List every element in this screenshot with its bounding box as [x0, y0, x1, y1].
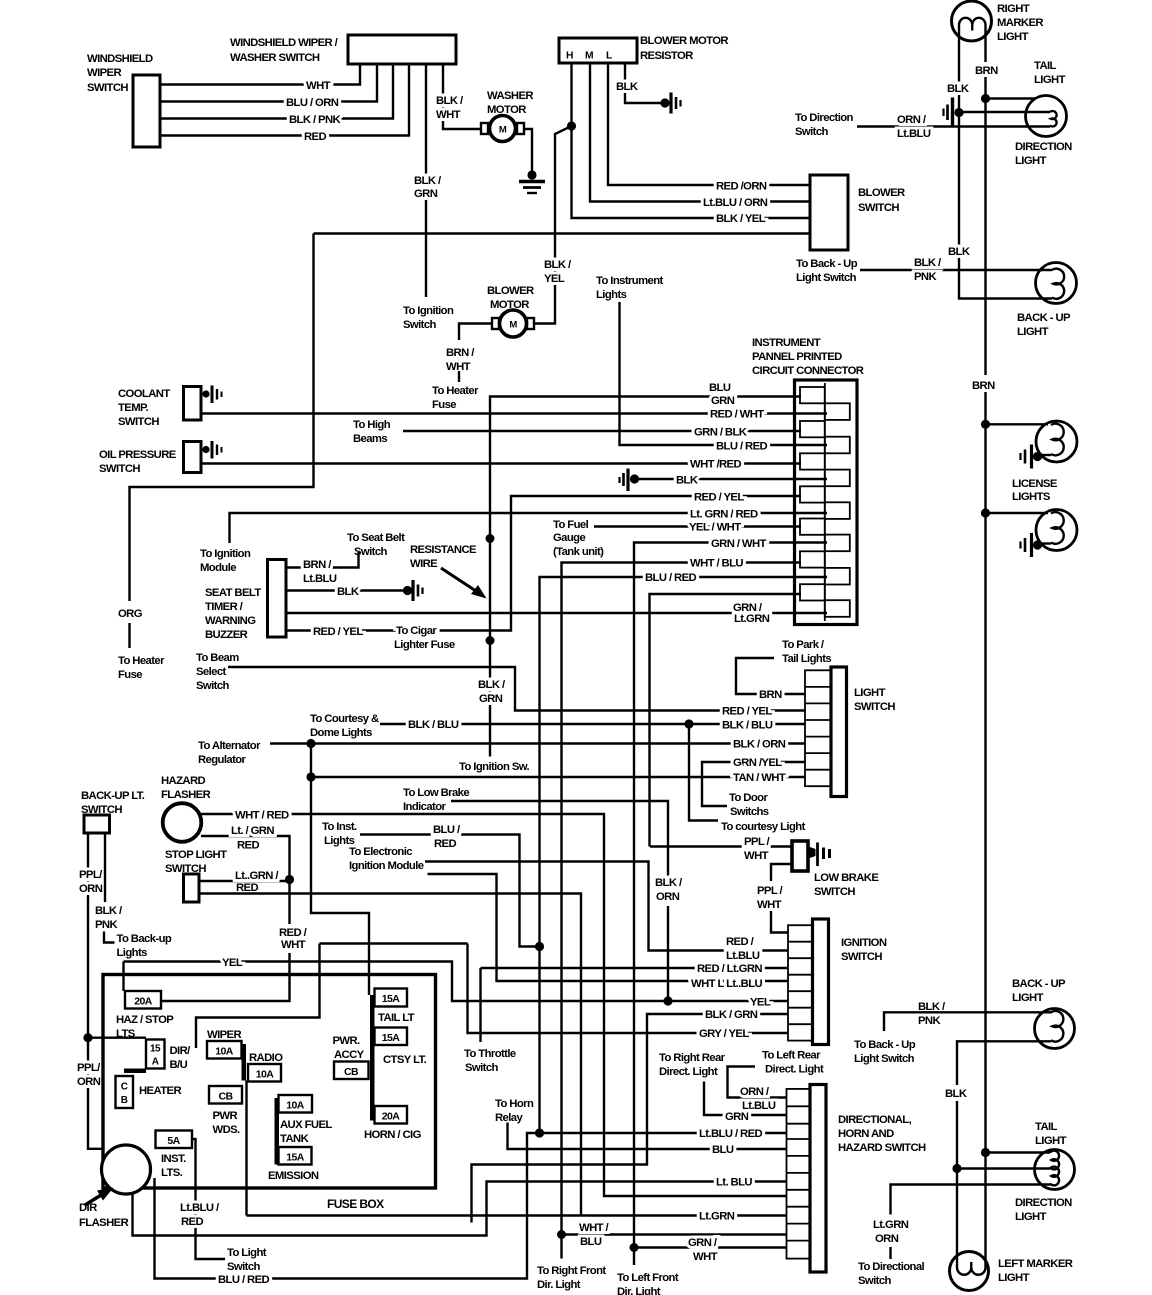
svg-text:Regulator: Regulator	[198, 754, 247, 766]
svg-text:LTS.: LTS.	[161, 1167, 183, 1179]
wire YEL riser into 20A fuse	[122, 962, 124, 992]
node resistance wire splice 1	[486, 534, 495, 543]
wire resistor H to blower switch BLK/YEL	[572, 63, 811, 225]
svg-text:M: M	[585, 51, 593, 62]
svg-text:WHT / RED: WHT / RED	[235, 810, 289, 822]
svg-text:LIGHT: LIGHT	[1034, 74, 1066, 86]
right marker light L1	[952, 1, 1044, 43]
svg-text:To Courtesy &: To Courtesy &	[310, 713, 379, 725]
svg-text:BLOWER MOTOR: BLOWER MOTOR	[640, 35, 728, 47]
svg-text:HAZ / STOP: HAZ / STOP	[116, 1014, 174, 1026]
svg-text:BLK: BLK	[945, 1088, 968, 1100]
svg-text:HORN AND: HORN AND	[838, 1128, 894, 1140]
svg-text:RESISTANCE: RESISTANCE	[410, 544, 477, 556]
svg-text:PPL/: PPL/	[77, 1062, 101, 1074]
svg-text:Lt.GRN: Lt.GRN	[734, 613, 770, 625]
svg-text:FLASHER: FLASHER	[79, 1217, 129, 1229]
wire WHT/RED hazard to directional	[201, 810, 787, 1197]
wire seat belt BLK to ground	[286, 586, 404, 598]
svg-text:10A: 10A	[256, 1069, 274, 1081]
svg-text:IGNITION: IGNITION	[841, 937, 887, 949]
svg-text:STOP LIGHT: STOP LIGHT	[165, 849, 227, 861]
svg-text:15A: 15A	[382, 993, 400, 1005]
left marker light L8	[950, 1252, 1073, 1291]
svg-text:BLK /: BLK /	[414, 175, 442, 187]
svg-text:Lt.BLU: Lt.BLU	[726, 950, 760, 962]
wire BLU/RED row from instrument lights	[596, 275, 827, 453]
svg-text:GRN: GRN	[414, 188, 438, 200]
svg-text:Direct. Light: Direct. Light	[765, 1064, 824, 1076]
svg-text:LIGHT: LIGHT	[1015, 1211, 1047, 1223]
node BLK tail light 2	[952, 1164, 1050, 1173]
node BRN tail light 2	[981, 1148, 1050, 1157]
svg-text:LIGHT: LIGHT	[1015, 155, 1047, 167]
svg-text:DIRECTION: DIRECTION	[1015, 141, 1072, 153]
svg-text:PWR.: PWR.	[333, 1035, 361, 1047]
svg-text:Lt.BLU /: Lt.BLU /	[180, 1202, 220, 1214]
svg-text:WIRE: WIRE	[410, 558, 438, 570]
svg-text:To Inst.: To Inst.	[322, 821, 357, 833]
svg-text:BLK /: BLK /	[914, 257, 942, 269]
svg-text:LIGHT: LIGHT	[1017, 326, 1049, 338]
svg-text:To Ignition: To Ignition	[403, 305, 454, 317]
svg-text:WASHER: WASHER	[487, 90, 533, 102]
node BRN license 1	[981, 420, 1048, 429]
svg-text:Switch: Switch	[858, 1275, 892, 1287]
svg-text:BLK / PNK: BLK / PNK	[289, 114, 342, 126]
node WHT/BLU splice to right front dir light	[537, 1230, 606, 1291]
svg-text:BLU: BLU	[709, 382, 731, 394]
svg-text:To Left Rear: To Left Rear	[762, 1050, 821, 1062]
wire BLK/BLU courtesy/dome	[310, 713, 805, 739]
svg-text:H: H	[566, 51, 573, 62]
low brake switch SW7	[792, 841, 879, 898]
wire feed to blower switch	[314, 232, 811, 234]
resistance wire label + arrow	[410, 544, 487, 599]
svg-text:To Cigar: To Cigar	[396, 625, 437, 637]
svg-text:B: B	[121, 1095, 128, 1106]
svg-text:BRN: BRN	[975, 65, 998, 77]
fuse 20A HORN/CIG	[364, 1106, 422, 1141]
wire RED/YEL from beam select switch	[196, 652, 805, 718]
svg-text:WHT: WHT	[757, 899, 782, 911]
svg-text:RED: RED	[236, 882, 258, 894]
svg-text:WHT: WHT	[446, 361, 471, 373]
svg-text:Select: Select	[196, 666, 227, 678]
svg-text:LIGHTS: LIGHTS	[1012, 491, 1051, 503]
svg-text:BRN: BRN	[759, 689, 782, 701]
svg-text:BLK: BLK	[616, 81, 639, 93]
wire GRN/WHT row	[634, 538, 827, 1248]
svg-text:CIRCUIT CONNECTOR: CIRCUIT CONNECTOR	[752, 365, 864, 377]
svg-text:BLK /: BLK /	[436, 95, 464, 107]
wire Lt.GRN/RED row to ignition module	[200, 509, 827, 575]
svg-text:HAZARD: HAZARD	[161, 775, 206, 787]
ignition switch SW8	[788, 919, 887, 1045]
svg-text:WHT /RED: WHT /RED	[690, 459, 741, 471]
svg-text:Lighter Fuse: Lighter Fuse	[394, 639, 455, 651]
svg-text:Switch: Switch	[196, 680, 230, 692]
wire BRN main bus	[972, 40, 998, 1253]
svg-text:Lt.BLU / RED: Lt.BLU / RED	[699, 1128, 763, 1140]
svg-text:To Seat Belt: To Seat Belt	[347, 532, 405, 544]
svg-text:10A: 10A	[286, 1100, 304, 1112]
svg-text:WHT: WHT	[744, 850, 769, 862]
svg-text:BLU / RED: BLU / RED	[645, 572, 697, 584]
svg-text:BLU /: BLU /	[433, 824, 461, 836]
svg-text:C: C	[121, 1082, 128, 1093]
oil pressure switch SW5	[99, 441, 222, 475]
node GRN/WHT splice to left front dir light	[617, 1243, 679, 1295]
svg-text:OIL PRESSURE: OIL PRESSURE	[99, 449, 177, 461]
ground (connector BLK)	[620, 469, 640, 492]
svg-text:RADIO: RADIO	[249, 1052, 283, 1064]
svg-text:Indicator: Indicator	[403, 801, 447, 813]
wire stoplight lower to WHT/BLU riser	[199, 894, 581, 1216]
svg-text:LEFT MARKER: LEFT MARKER	[998, 1258, 1073, 1270]
node resistance wire splice 2	[486, 636, 495, 645]
svg-text:PPL/: PPL/	[79, 869, 103, 881]
license light L5	[1036, 510, 1077, 551]
fuse 15A DIR/B-U	[146, 1040, 191, 1072]
hazard flasher U2	[161, 775, 211, 842]
svg-text:TIMER /: TIMER /	[205, 601, 244, 613]
svg-text:WINDSHIELD WIPER /: WINDSHIELD WIPER /	[230, 37, 339, 49]
bus bar aux fuel	[275, 1098, 280, 1165]
svg-text:To Directional: To Directional	[858, 1261, 925, 1273]
svg-text:Lt. GRN / RED: Lt. GRN / RED	[690, 509, 758, 521]
node Lt.BLU/RED splice	[535, 1128, 544, 1137]
wire TAN/WHT row (to ignition sw)	[311, 772, 805, 784]
svg-text:To Ignition: To Ignition	[200, 548, 251, 560]
svg-text:To Low Brake: To Low Brake	[403, 787, 469, 799]
svg-text:DIRECTION: DIRECTION	[1015, 1197, 1072, 1209]
windshield wiper switch SW1	[87, 53, 160, 147]
coolant temp switch SW4	[118, 386, 222, 429]
fuse 10A RADIO	[248, 1052, 283, 1082]
svg-text:LOW BRAKE: LOW BRAKE	[814, 872, 879, 884]
fuse 10A AUX FUEL TANK	[279, 1095, 333, 1145]
wire BLK/PNK into back-up light 2	[944, 1011, 1052, 1013]
seat belt timer / warning buzzer U1	[205, 560, 286, 642]
svg-text:RED / WHT: RED / WHT	[710, 409, 764, 421]
svg-text:To Throttle: To Throttle	[464, 1048, 516, 1060]
node alternator splice	[306, 739, 315, 748]
svg-text:Module: Module	[200, 562, 236, 574]
svg-text:Lights: Lights	[324, 835, 355, 847]
svg-text:LIGHT: LIGHT	[997, 31, 1029, 43]
svg-text:RED / YEL: RED / YEL	[313, 626, 363, 638]
wire BLU/RED row 2	[540, 572, 828, 1133]
svg-text:GRN: GRN	[725, 1111, 749, 1123]
svg-text:PNK: PNK	[95, 919, 118, 931]
svg-text:ORN: ORN	[77, 1076, 101, 1088]
ground (washer motor earth)	[519, 170, 545, 193]
svg-text:RED: RED	[434, 838, 456, 850]
svg-text:PANNEL PRINTED: PANNEL PRINTED	[752, 351, 842, 363]
svg-text:MARKER: MARKER	[997, 17, 1043, 29]
svg-text:Switchs: Switchs	[730, 806, 769, 818]
wire wiper-bar to Lt.GRN row	[245, 1081, 247, 1216]
tail light / direction light L7	[1015, 1121, 1075, 1223]
svg-text:BACK-UP LT.: BACK-UP LT.	[81, 790, 145, 802]
svg-text:CTSY LT.: CTSY LT.	[383, 1054, 427, 1066]
node PPL/ORN fuse splice + wire to 15A	[83, 1033, 146, 1042]
svg-text:SWITCH: SWITCH	[118, 416, 159, 428]
wire BLK/WHT to washer motor	[436, 64, 482, 129]
wire jog stoplight-to-GRY/YEL feed	[196, 944, 468, 1049]
svg-text:BACK - UP: BACK - UP	[1012, 978, 1066, 990]
back-up light L6	[1012, 978, 1075, 1049]
svg-text:Lt.BLU / ORN: Lt.BLU / ORN	[703, 197, 768, 209]
wire ORN/Lt.BLU directional pin1	[728, 1050, 824, 1113]
wire BLK/PNK to back-up light	[796, 257, 1052, 284]
svg-text:To Park /: To Park /	[782, 639, 825, 651]
svg-text:DIR: DIR	[79, 1202, 97, 1214]
svg-text:WHT L Lt..BLU: WHT L Lt..BLU	[691, 978, 762, 990]
wire 5A to light switch (Lt.BLU/RED)	[180, 1139, 267, 1273]
back-up lt switch SW10	[81, 790, 145, 833]
svg-text:DIR/: DIR/	[170, 1045, 192, 1057]
svg-text:GRN / BLK: GRN / BLK	[694, 427, 748, 439]
svg-text:ORN: ORN	[875, 1233, 899, 1245]
svg-text:INST.: INST.	[161, 1153, 186, 1165]
wire BLK/ORN row (alternator regulator)	[198, 739, 805, 767]
svg-text:SWITCH: SWITCH	[858, 202, 899, 214]
wire YEL ignition pin5	[124, 957, 789, 1009]
svg-text:SWITCH: SWITCH	[854, 701, 895, 713]
svg-text:COOLANT: COOLANT	[118, 388, 170, 400]
svg-text:RED / YEL: RED / YEL	[694, 492, 744, 504]
svg-text:LICENSE: LICENSE	[1012, 478, 1058, 490]
wire Lt.GRN ORN to directional switch	[858, 1185, 1050, 1288]
fuse 15A CTSY LT	[375, 1028, 427, 1067]
svg-text:HEATER: HEATER	[139, 1085, 181, 1097]
svg-text:SWITCH: SWITCH	[99, 463, 140, 475]
svg-text:GRY / YEL: GRY / YEL	[699, 1028, 749, 1040]
svg-text:5A: 5A	[167, 1135, 180, 1147]
wire Lt..GRN/RED stoplight	[199, 870, 290, 894]
wire GRN row (connector pin 1)	[490, 382, 801, 538]
svg-text:BLK / YEL: BLK / YEL	[716, 213, 766, 225]
wire BLK/GRN to ignition sw	[459, 539, 530, 774]
svg-text:To Back - Up: To Back - Up	[796, 258, 858, 270]
svg-text:To High: To High	[353, 419, 391, 431]
svg-text:YEL / WHT: YEL / WHT	[689, 522, 741, 534]
svg-text:BLK / BLU: BLK / BLU	[722, 720, 773, 732]
fuse 15A TAIL LT	[375, 989, 415, 1025]
svg-text:BLU: BLU	[712, 1144, 734, 1156]
wire GRY/YEL ignition pin7	[468, 944, 789, 1041]
blower motor M2	[487, 285, 534, 337]
svg-text:DIRECTIONAL,: DIRECTIONAL,	[838, 1114, 912, 1126]
svg-text:To Heater: To Heater	[432, 385, 479, 397]
svg-text:TAIL: TAIL	[1034, 60, 1057, 72]
wire ORG to heater fuse	[118, 234, 314, 682]
wire PPL/WHT low brake	[650, 836, 791, 862]
svg-text:RED / Lt.GRN: RED / Lt.GRN	[697, 963, 762, 975]
svg-text:20A: 20A	[382, 1111, 400, 1123]
svg-text:15A: 15A	[382, 1032, 400, 1044]
svg-text:Gauge: Gauge	[553, 532, 585, 544]
svg-text:Switch: Switch	[354, 546, 388, 558]
license light L4	[1036, 421, 1077, 462]
svg-text:To Left Front: To Left Front	[617, 1272, 679, 1284]
wire GRN directional pin2	[659, 1052, 787, 1123]
wire RED/YEL row	[286, 492, 801, 652]
svg-text:GRN /YEL: GRN /YEL	[733, 757, 782, 769]
svg-text:YEL: YEL	[544, 273, 565, 285]
svg-text:ORN /: ORN /	[740, 1086, 770, 1098]
svg-text:Lights: Lights	[596, 289, 627, 301]
svg-text:ORN /: ORN /	[897, 114, 927, 126]
svg-text:Fuse: Fuse	[432, 399, 456, 411]
svg-text:RED /ORN: RED /ORN	[716, 181, 767, 193]
wire GRN/WHT directional pin10	[634, 1237, 787, 1263]
svg-text:B/U: B/U	[170, 1059, 188, 1071]
node BLU/RED splice	[535, 942, 544, 951]
wire BLK row + ground	[635, 475, 828, 487]
svg-text:A: A	[152, 1057, 159, 1068]
svg-text:PNK: PNK	[918, 1015, 941, 1027]
wire GRN/Lt.GRN row	[286, 602, 827, 625]
svg-text:WHT: WHT	[436, 109, 461, 121]
svg-text:PPL /: PPL /	[744, 836, 771, 848]
svg-text:TEMP.: TEMP.	[118, 402, 149, 414]
svg-text:CB: CB	[219, 1091, 234, 1103]
svg-text:20A: 20A	[134, 996, 152, 1008]
fuse 10A WIPER	[207, 1029, 242, 1059]
svg-text:TAN / WHT: TAN / WHT	[733, 772, 786, 784]
blower switch SW3	[810, 175, 905, 250]
svg-text:Lt.BLU: Lt.BLU	[303, 573, 337, 585]
svg-text:LIGHT: LIGHT	[1012, 992, 1044, 1004]
node BRN license 2	[981, 508, 1048, 517]
svg-text:Lt.BLU: Lt.BLU	[897, 128, 931, 140]
svg-text:BLK /: BLK /	[478, 679, 506, 691]
svg-text:Relay: Relay	[495, 1112, 523, 1124]
wire BLU/ORN	[160, 64, 377, 109]
svg-text:WHT: WHT	[693, 1251, 718, 1263]
svg-text:FLASHER: FLASHER	[161, 789, 211, 801]
fuse 15A EMISSION	[268, 1147, 319, 1182]
wire BLK/ORN (low brake indicator)	[403, 787, 683, 1001]
svg-text:BLOWER: BLOWER	[858, 187, 905, 199]
svg-text:Switch: Switch	[403, 319, 437, 331]
ground (license 1)	[1021, 445, 1043, 469]
svg-text:Switch: Switch	[465, 1062, 499, 1074]
wire YEL/WHT row to fuel gauge	[553, 519, 801, 558]
svg-text:Switch: Switch	[227, 1261, 261, 1273]
wire BLK/YEL to blower motor	[534, 126, 572, 324]
svg-text:PPL /: PPL /	[757, 885, 784, 897]
svg-text:ORN: ORN	[656, 891, 680, 903]
svg-text:M: M	[509, 320, 517, 331]
wire BLK/GRN to ignition switch	[403, 64, 454, 331]
wire WHT L Lt..BLU ignition pin4	[428, 874, 789, 990]
wire WHT	[160, 64, 360, 92]
light switch SW6	[805, 667, 895, 797]
svg-text:BLK / BLU: BLK / BLU	[408, 719, 459, 731]
fuse 20A HAZ/STOP LTS	[116, 991, 174, 1040]
svg-text:To Horn: To Horn	[495, 1098, 534, 1110]
svg-text:BLK /: BLK /	[95, 905, 123, 917]
svg-text:BRN /: BRN /	[303, 559, 332, 571]
wire WHT/BLU directional pin9	[562, 1222, 787, 1248]
svg-text:Tail Lights: Tail Lights	[782, 653, 831, 665]
wire BLK left bottom	[945, 1041, 1051, 1252]
wire connector row 13 (unlabeled)	[650, 594, 802, 847]
svg-text:To Beam: To Beam	[196, 652, 239, 664]
svg-text:BLU / ORN: BLU / ORN	[286, 97, 339, 109]
svg-text:GRN: GRN	[711, 395, 735, 407]
svg-text:Lt. BLU: Lt. BLU	[716, 1177, 752, 1189]
wire WHT/BLU row	[562, 558, 802, 1259]
bus bar wiper	[242, 1044, 247, 1081]
breaker CB HEATER	[116, 1076, 182, 1108]
washer motor M1	[481, 90, 533, 142]
svg-text:Switch: Switch	[795, 126, 829, 138]
svg-text:TANK: TANK	[280, 1133, 310, 1145]
wire BRN/Lt.BLU to seat belt switch	[286, 532, 405, 585]
svg-text:To Light: To Light	[227, 1247, 267, 1259]
wire dir flasher BLU/RED to Lt.BLU/RED row	[155, 1128, 787, 1286]
fuse 5A INST LTS	[156, 1131, 193, 1180]
svg-text:SWITCH: SWITCH	[87, 82, 128, 94]
svg-text:To Electronic: To Electronic	[349, 846, 412, 858]
svg-text:BLK: BLK	[947, 83, 970, 95]
svg-text:Dir. Light: Dir. Light	[617, 1286, 661, 1295]
svg-text:Dome Lights: Dome Lights	[310, 727, 372, 739]
wire BLU horn relay directional pin4	[495, 1098, 787, 1156]
wire GRN/YEL to door switches	[702, 757, 805, 818]
svg-text:CB: CB	[344, 1066, 359, 1078]
svg-text:BUZZER: BUZZER	[205, 629, 248, 641]
svg-text:Lights: Lights	[117, 947, 148, 959]
ground (license 2)	[1021, 533, 1043, 557]
breaker CB PWR ACCY	[333, 1035, 369, 1079]
svg-text:PNK: PNK	[914, 271, 937, 283]
svg-text:RESISTOR: RESISTOR	[640, 50, 693, 62]
svg-text:FUSE BOX: FUSE BOX	[327, 1197, 384, 1211]
svg-text:To Right Front: To Right Front	[537, 1265, 606, 1277]
svg-text:ACCY: ACCY	[334, 1049, 365, 1061]
svg-text:WHT /: WHT /	[579, 1222, 609, 1234]
svg-text:ORN: ORN	[79, 883, 103, 895]
svg-text:Lt. / GRN: Lt. / GRN	[231, 825, 274, 837]
svg-text:BACK - UP: BACK - UP	[1017, 312, 1071, 324]
svg-text:BLU / RED: BLU / RED	[218, 1274, 270, 1286]
svg-text:BLK: BLK	[337, 586, 360, 598]
svg-text:Direct. Light: Direct. Light	[659, 1066, 718, 1078]
wire RED/WHT to fuse box	[161, 880, 308, 1002]
svg-text:WHT: WHT	[306, 80, 331, 92]
wire RED	[160, 64, 409, 143]
svg-text:To Door: To Door	[729, 792, 768, 804]
windshield wiper / washer switch SW2	[230, 35, 456, 64]
svg-text:GRN /: GRN /	[688, 1237, 718, 1249]
wire resistor M Lt.BLU/ORN	[590, 63, 810, 209]
wire BLK/GRN ignition pin6	[472, 1009, 789, 1223]
svg-text:To Alternator: To Alternator	[198, 740, 261, 752]
svg-text:To Fuel: To Fuel	[553, 519, 589, 531]
svg-text:Light Switch: Light Switch	[796, 272, 857, 284]
wire BLU/RED to inst lights	[322, 821, 540, 947]
wire BLK right marker to back-up light	[947, 40, 1052, 299]
svg-text:Light Switch: Light Switch	[854, 1053, 915, 1065]
svg-text:LIGHT: LIGHT	[854, 687, 886, 699]
svg-text:Fuse: Fuse	[118, 669, 142, 681]
